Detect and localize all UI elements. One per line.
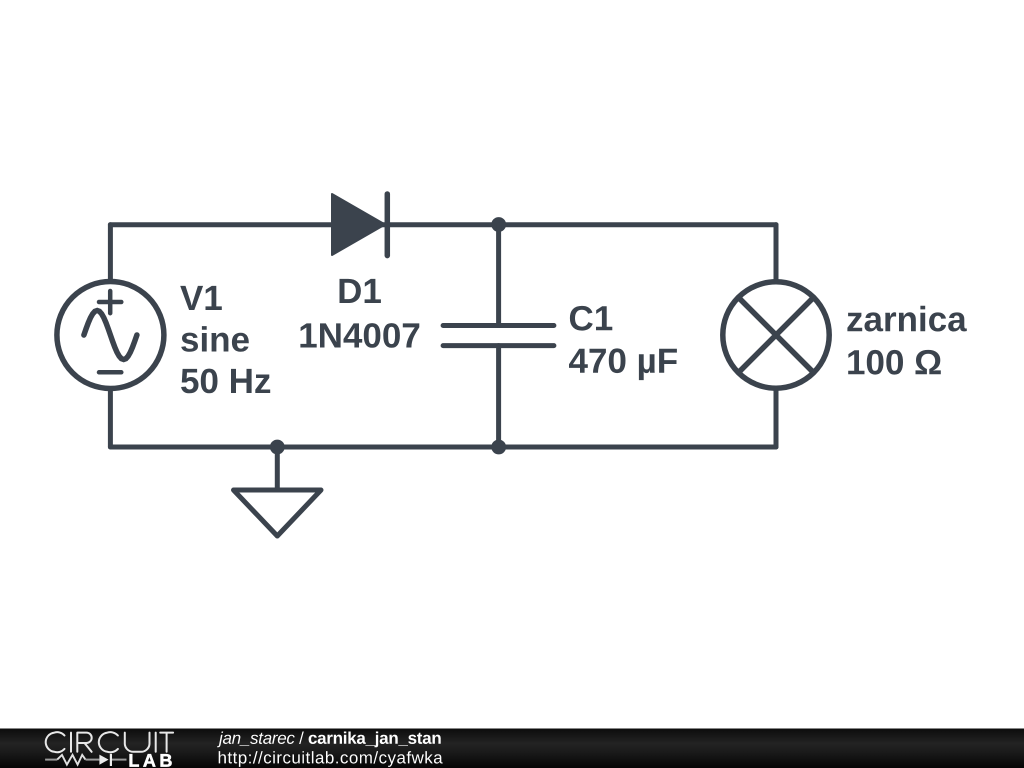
diode D1 bbox=[332, 194, 387, 256]
V1 label: V1 / sine / 50 Hz bbox=[180, 286, 270, 393]
letter I bbox=[155, 733, 157, 752]
wire bottom horizontal bbox=[110, 445, 776, 450]
node junction dot ground tap bbox=[270, 440, 285, 455]
V1 minus polarity mark bbox=[99, 370, 121, 375]
letter C bbox=[46, 732, 65, 752]
lamp (zarnica) bbox=[723, 282, 829, 388]
letter R bbox=[77, 733, 91, 752]
letter I bbox=[70, 733, 72, 752]
footer url line bbox=[219, 751, 443, 767]
letter T bbox=[160, 733, 173, 752]
wire V1 bottom lead bbox=[108, 389, 113, 447]
C1 label: C1 / 470 uF bbox=[569, 306, 677, 380]
wire top horizontal bbox=[110, 222, 776, 227]
lamp label: zarnica / 100 ohm bbox=[847, 306, 966, 375]
ground bbox=[234, 447, 322, 536]
wire V1 top lead bbox=[108, 225, 113, 282]
CircuitLab logo word CIRCUIT (thin strokes) bbox=[46, 732, 173, 752]
footer bar background bbox=[0, 729, 1024, 768]
letter U bbox=[125, 733, 150, 752]
letter C bbox=[99, 732, 118, 752]
footer credit line: jan_starec / carnika_jan_stan bbox=[217, 732, 441, 748]
logo schematic squiggle (resistor + diode) bbox=[45, 754, 126, 766]
capacitor C1 bbox=[443, 225, 554, 447]
node junction dot top (cap top) bbox=[491, 217, 506, 232]
V1 plus polarity mark bbox=[99, 291, 121, 313]
wire lamp top lead bbox=[774, 225, 779, 282]
D1 label: D1 / 1N4007 bbox=[300, 279, 419, 348]
voltage source V1 bbox=[57, 282, 164, 389]
node junction dot bottom (cap bottom) bbox=[491, 440, 506, 455]
wire lamp bottom lead bbox=[774, 389, 779, 447]
logo word LAB bbox=[130, 754, 172, 766]
